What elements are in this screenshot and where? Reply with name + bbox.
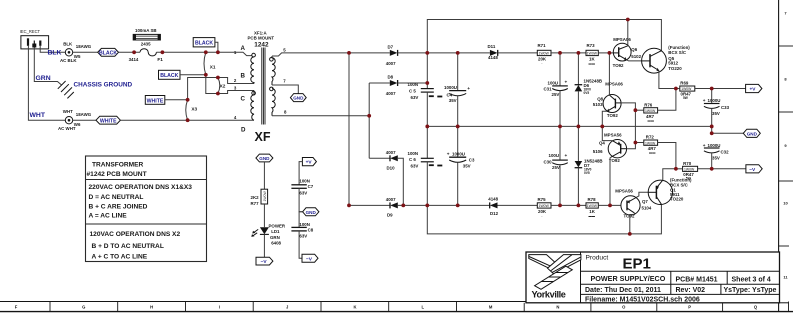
wire R78 to Q7 base: [598, 204, 621, 206]
svg-text:R77: R77: [251, 201, 260, 206]
svg-text:X3: X3: [191, 107, 197, 112]
svg-text:Yorkville: Yorkville: [532, 290, 566, 300]
svg-text:AC BLK: AC BLK: [60, 58, 77, 63]
transformer secondary winding 5-7: [272, 56, 275, 85]
svg-text:D9: D9: [387, 213, 393, 218]
resistor R71 20K: [537, 43, 551, 65]
connector W6: [58, 109, 92, 131]
bottom border strip: [0, 302, 793, 312]
svg-text:100U: 100U: [548, 80, 559, 85]
zener diode D6 1N5248B: [575, 53, 602, 127]
svg-text:C 6: C 6: [409, 157, 416, 162]
capacitor C33 1000U: [703, 89, 730, 134]
wire AC ground from IEC to chassis: [34, 48, 62, 86]
transformer phase dot primary A: [252, 53, 256, 57]
wire left column +raw to C5: [426, 53, 428, 89]
transformer info note box: [86, 156, 207, 262]
svg-text:X2: X2: [220, 83, 226, 88]
svg-text:3414: 3414: [129, 57, 139, 62]
svg-text:220VAC OPERATION DNS X1&X3: 220VAC OPERATION DNS X1&X3: [89, 184, 193, 191]
resistor R77 2K2: [251, 189, 268, 206]
capacitor C6 100N: [408, 151, 443, 169]
wire Q4 collector down to Q7 base node: [609, 157, 612, 205]
wire Q8 emitter to GND rail: [602, 111, 607, 126]
svg-text:20K: 20K: [538, 209, 547, 214]
title block: [526, 252, 780, 303]
svg-text:B: B: [241, 73, 246, 80]
wire W6 to WHITE flag: [73, 119, 96, 121]
svg-text:100N: 100N: [299, 222, 310, 227]
svg-text:+: +: [565, 79, 568, 84]
resistor R75 20K: [537, 197, 551, 218]
capacitor C8 100N: [291, 222, 313, 239]
wire GND to R77: [263, 162, 265, 189]
svg-text:100N: 100N: [408, 151, 419, 156]
wire color callout WHITE (rect): [145, 96, 187, 105]
svg-text:35V: 35V: [463, 164, 471, 169]
power flag -V (output): [746, 165, 762, 173]
svg-text:1W0W: 1W0W: [645, 109, 656, 113]
svg-text:25V: 25V: [552, 92, 560, 97]
svg-text:MPSA06: MPSA06: [605, 81, 623, 86]
svg-text:WHITE: WHITE: [100, 118, 117, 124]
svg-text:100mA SB: 100mA SB: [135, 28, 157, 33]
wire pin8 to rectifier: [272, 115, 369, 117]
wire WHITE node up to X2 box: [188, 78, 206, 100]
wire GND stub to flag: [712, 132, 744, 134]
svg-text:63V: 63V: [299, 191, 307, 196]
resistor R69 0R47: [676, 81, 746, 101]
wire AC neutral from IEC down to W6 row: [28, 46, 65, 120]
wire R71 to R73: [551, 52, 586, 54]
svg-text:1W0W: 1W0W: [539, 52, 550, 56]
svg-text:GRN: GRN: [36, 75, 51, 82]
svg-text:+: +: [467, 86, 470, 91]
svg-text:2435: 2435: [141, 42, 151, 47]
svg-text:4007: 4007: [386, 197, 396, 202]
wire GND mid rail: [427, 125, 711, 127]
capacitor C30 100U: [544, 126, 568, 205]
svg-text:Product: Product: [586, 255, 609, 262]
svg-text:R71: R71: [538, 43, 547, 48]
wire +raw rail D7 to D11: [427, 52, 490, 54]
svg-text:GRN: GRN: [270, 235, 280, 240]
svg-text:R69: R69: [680, 81, 689, 86]
svg-text:BCX S/C: BCX S/C: [668, 50, 687, 55]
wire Q6 emitter to Q5 base: [626, 60, 641, 61]
svg-text:1000U: 1000U: [444, 85, 457, 90]
wire Q4 base to R72 node: [627, 143, 636, 149]
svg-text:1242: 1242: [254, 42, 269, 49]
svg-text:R75: R75: [538, 197, 547, 202]
transistor Q6 MPSA06: [613, 37, 642, 68]
transformer secondary winding 7-8: [272, 89, 275, 116]
svg-text:Q7: Q7: [642, 199, 648, 204]
svg-text:Q6: Q6: [631, 47, 637, 52]
svg-text:Filename: M1451V02SCH.sch 200: Filename: M1451V02SCH.sch 2006: [585, 297, 700, 304]
wire GND to C8: [299, 212, 303, 228]
resistor R76 4R7: [635, 89, 676, 123]
power flag +V (decoupling chain): [299, 158, 316, 185]
wire collector supply top edge: [427, 20, 661, 53]
svg-text:+: +: [565, 153, 568, 158]
wire LED to -V: [263, 234, 265, 257]
wire color callout BLACK (rect) lower: [159, 70, 206, 79]
chassis ground: [58, 81, 74, 98]
wire X2 to pins 2 and 3: [218, 78, 254, 94]
svg-text:BLK: BLK: [63, 41, 73, 46]
svg-text:1W0W: 1W0W: [645, 141, 656, 145]
svg-text:18AWG: 18AWG: [76, 112, 92, 117]
svg-text:R76: R76: [644, 102, 653, 107]
power flag GND (LED chain): [256, 154, 273, 162]
wire WHITE flag to transformer pin 4: [120, 119, 254, 121]
svg-text:D8: D8: [388, 75, 394, 80]
jumper X2: [218, 78, 226, 94]
svg-text:POWER: POWER: [269, 224, 286, 229]
svg-text:C30: C30: [544, 159, 553, 164]
transistor Q1 BCX S/C TO220: [648, 178, 692, 205]
svg-text:5106: 5106: [593, 149, 603, 154]
svg-text:.: .: [542, 214, 543, 218]
svg-text:▬▬: ▬▬: [649, 151, 656, 155]
fuse rating callout 100mA SB: [133, 28, 160, 47]
diode D12: [488, 197, 498, 216]
jumper X3: [186, 100, 198, 120]
svg-text:C 5: C 5: [409, 88, 416, 93]
svg-text:35V: 35V: [712, 111, 720, 116]
capacitor C3 1000U: [447, 126, 475, 205]
svg-text:C33: C33: [721, 105, 730, 110]
wire C5 to GND rail: [426, 92, 428, 158]
svg-text:D12: D12: [490, 211, 499, 216]
svg-text:Sheet 3 of 4: Sheet 3 of 4: [732, 277, 771, 284]
svg-text:GND: GND: [293, 96, 304, 101]
pin number labels: [234, 48, 287, 120]
svg-text:1000U: 1000U: [708, 143, 721, 148]
svg-text:+V: +V: [306, 160, 313, 166]
transistor Q5 BCX S/C TO220: [642, 45, 691, 73]
svg-text:4007: 4007: [386, 61, 396, 66]
svg-text:−V: −V: [749, 167, 756, 173]
wire pin8 column D8 to D10: [368, 83, 370, 158]
svg-text:TO220: TO220: [668, 66, 682, 71]
svg-text:TO92: TO92: [607, 113, 618, 118]
svg-text:H: H: [150, 305, 153, 310]
svg-text:#1242 PCB MOUNT: #1242 PCB MOUNT: [87, 171, 147, 178]
wire R73 to Q6 base: [598, 52, 613, 54]
svg-text:BLK: BLK: [48, 50, 62, 57]
svg-text:6408: 6408: [271, 241, 281, 246]
svg-text:B + C ARE JOINED: B + C ARE JOINED: [89, 203, 148, 210]
wire C6 to -raw rail: [426, 162, 428, 206]
power flag +V (output): [746, 84, 762, 92]
svg-text:20K: 20K: [538, 57, 547, 62]
svg-text:4148: 4148: [488, 197, 498, 202]
svg-text:5104: 5104: [642, 205, 652, 210]
net flag WHITE: [96, 116, 120, 124]
svg-text:C32: C32: [721, 149, 730, 154]
svg-text:+: +: [703, 98, 706, 103]
right border strip: [779, 0, 793, 312]
svg-text:M: M: [489, 305, 493, 310]
resistor R72 4R7: [635, 134, 676, 168]
diode D8: [369, 75, 427, 97]
svg-text:GND: GND: [306, 210, 317, 215]
svg-text:R78: R78: [588, 197, 597, 202]
svg-text:PCB# M1451: PCB# M1451: [676, 277, 718, 284]
svg-text:CHASSIS GROUND: CHASSIS GROUND: [74, 82, 133, 89]
svg-text:−V: −V: [306, 256, 313, 262]
Yorkville logo: [529, 255, 581, 290]
capacitor C31 100U: [544, 53, 568, 127]
svg-text:63V: 63V: [299, 234, 307, 239]
wire fuse to transformer pin 1: [156, 52, 251, 55]
svg-text:5912: 5912: [668, 61, 678, 66]
power flag GND (output): [743, 129, 760, 137]
svg-text:+V: +V: [749, 87, 756, 93]
svg-text:▬▬: ▬▬: [648, 118, 655, 122]
transistor Q7 MPSA56: [615, 189, 652, 219]
svg-text:1000U: 1000U: [452, 152, 465, 157]
svg-text:+: +: [703, 143, 706, 148]
svg-text:D: D: [241, 127, 246, 134]
wire R75 to R78: [551, 204, 586, 206]
svg-text:D = AC NEUTRAL: D = AC NEUTRAL: [89, 194, 144, 201]
svg-text:XF: XF: [255, 130, 271, 144]
wire pin5 column down to D9: [349, 53, 390, 206]
power flag GND (pin7): [290, 94, 306, 102]
wire W5 to BLACK flag: [73, 51, 98, 53]
svg-text:1W0W: 1W0W: [539, 204, 550, 208]
wire R77 to LED: [263, 204, 265, 227]
svg-text:MPSA56: MPSA56: [615, 189, 633, 194]
svg-text:A = AC LINE: A = AC LINE: [89, 213, 128, 220]
zener diode D7 1N5248B (lower): [575, 126, 603, 205]
wire AC hot from IEC to W5: [40, 46, 65, 53]
svg-text:120VAC OPERATION DNS X2: 120VAC OPERATION DNS X2: [90, 231, 181, 238]
svg-text:4007: 4007: [386, 150, 396, 155]
svg-text:L: L: [422, 305, 425, 310]
svg-text:TO92: TO92: [613, 63, 624, 68]
net flag BLACK: [98, 48, 119, 56]
transistor Q8 MPSA06 (mirrored): [593, 81, 624, 118]
svg-text:C7: C7: [308, 184, 314, 189]
transistor Q4 MPSA56 (mirrored): [593, 132, 627, 162]
capacitor C32 1000U: [703, 143, 729, 169]
svg-text:PCB MOUNT: PCB MOUNT: [248, 35, 275, 40]
wire X1 node into X2 box: [206, 75, 218, 94]
svg-text:D10: D10: [387, 166, 396, 171]
svg-text:Date: Thu Dec 01, 2011: Date: Thu Dec 01, 2011: [585, 287, 661, 294]
svg-text:35V: 35V: [712, 155, 720, 160]
svg-text:B + D TO AC NEUTRAL: B + D TO AC NEUTRAL: [92, 243, 164, 250]
wire collector supply bottom edge: [427, 204, 661, 234]
svg-text:−V: −V: [261, 259, 268, 265]
svg-text:TO220: TO220: [670, 197, 684, 202]
svg-text:TRANSFORMER: TRANSFORMER: [92, 162, 144, 169]
svg-text:MPSA56: MPSA56: [604, 132, 622, 137]
svg-text:25V: 25V: [552, 165, 560, 170]
wire top edge to Q6 collector: [627, 20, 629, 46]
svg-text:X1: X1: [210, 65, 216, 70]
wire Q8 base node to Q4 base node: [634, 110, 636, 142]
svg-text:Q4: Q4: [599, 141, 605, 146]
svg-text:0V5: 0V5: [584, 171, 590, 175]
svg-text:5W: 5W: [683, 96, 688, 100]
wire -raw rail: [398, 204, 490, 206]
svg-text:Rev: V02: Rev: V02: [676, 287, 706, 294]
wire Q7 collector to bottom edge: [630, 213, 635, 234]
svg-text:POWER SUPPLY/ECO: POWER SUPPLY/ECO: [591, 274, 666, 283]
svg-text:K: K: [353, 305, 356, 310]
wire BLACK flag to fuse: [119, 51, 141, 53]
svg-text:R72: R72: [646, 134, 655, 139]
svg-text:100U: 100U: [549, 153, 560, 158]
svg-text:C3: C3: [469, 157, 475, 162]
svg-text:G: G: [82, 305, 85, 310]
svg-text:GND: GND: [259, 156, 270, 161]
transformer phase dot secondary 7: [270, 87, 274, 91]
svg-text:4007: 4007: [386, 91, 396, 96]
diode D9: [386, 197, 398, 218]
svg-text:63V: 63V: [411, 163, 419, 168]
svg-text:BLACK: BLACK: [195, 41, 213, 47]
transformer primary winding C-D: [251, 91, 254, 121]
capacitor C4 1000U: [444, 53, 470, 127]
svg-text:1W0W: 1W0W: [587, 52, 598, 56]
jumper X1: [204, 52, 216, 75]
diode D10: [369, 150, 403, 205]
svg-text:A + C TO AC LINE: A + C TO AC LINE: [92, 254, 148, 261]
svg-text:1W0W: 1W0W: [263, 191, 267, 202]
svg-text:1W0W: 1W0W: [587, 204, 598, 208]
diode D7: [386, 45, 428, 67]
svg-text:I: I: [219, 305, 220, 310]
svg-text:LD1: LD1: [271, 229, 280, 234]
svg-text:5102: 5102: [631, 54, 641, 59]
svg-text:C8: C8: [308, 228, 314, 233]
wire pin7 to GND: [272, 85, 298, 94]
wire Q4 emitter to GND rail: [602, 126, 612, 140]
LED LD1 POWER: [251, 224, 286, 246]
svg-text:N: N: [556, 305, 559, 310]
resistor R73 1K: [586, 43, 598, 65]
svg-text:AC WHT: AC WHT: [58, 126, 76, 131]
svg-text:BLACK: BLACK: [160, 73, 178, 79]
svg-text:P: P: [688, 305, 691, 310]
svg-text:IEC_RECT: IEC_RECT: [20, 29, 41, 34]
svg-text:WHT: WHT: [63, 109, 73, 114]
wire pin5 to D7 anode: [272, 53, 390, 56]
svg-text:YsType: YsType: YsType: YsType: [724, 287, 777, 294]
wire D11 to R71: [498, 52, 538, 54]
svg-text:WHT: WHT: [30, 112, 46, 119]
wire Q7 emitter to Q1 base: [636, 192, 648, 197]
wire Q5 emitter to +V node: [659, 71, 676, 89]
svg-text:EP1: EP1: [623, 256, 651, 273]
svg-text:GND: GND: [747, 131, 758, 136]
connector J1 IEC_RECT: [20, 29, 49, 49]
svg-text:0V5: 0V5: [584, 91, 590, 95]
svg-text:A: A: [241, 45, 246, 52]
svg-text:4148: 4148: [488, 55, 498, 60]
svg-text:F1: F1: [157, 57, 163, 62]
svg-text:WHITE: WHITE: [147, 98, 164, 104]
fuse F1: [129, 49, 164, 62]
wire Q1 emitter to -V node: [663, 169, 676, 180]
winding letter labels A B C D: [241, 45, 247, 134]
resistor R70 0R47: [676, 161, 746, 181]
power flag -V (LED chain): [256, 257, 273, 265]
wire Q8 base to R76 node: [621, 103, 635, 110]
svg-text:F: F: [15, 305, 18, 310]
svg-text:C31: C31: [544, 87, 553, 92]
svg-text:2K2: 2K2: [251, 195, 260, 200]
transformer phase dot primary C: [252, 91, 256, 95]
power flag GND (decoupling mid): [303, 208, 319, 216]
svg-text:Q8: Q8: [597, 97, 603, 102]
transformer core: [262, 48, 265, 125]
resistor R78 1K: [586, 197, 598, 218]
svg-text:▬▬: ▬▬: [589, 214, 596, 218]
power flag -V (decoupling chain): [302, 254, 318, 262]
diode D11: [488, 44, 499, 60]
svg-text:63V: 63V: [411, 95, 419, 100]
svg-text:TO92: TO92: [609, 158, 620, 163]
svg-text:MPSA06: MPSA06: [613, 37, 631, 42]
svg-text:5103: 5103: [593, 102, 603, 107]
wire color callout BLACK (rect) upper: [193, 38, 218, 53]
svg-text:▬▬: ▬▬: [589, 61, 596, 65]
wire C8 to -V: [299, 231, 302, 258]
wire C7 to GND: [299, 188, 303, 212]
svg-text:BLACK: BLACK: [99, 50, 117, 56]
svg-text:18AWG: 18AWG: [76, 44, 92, 49]
transformer primary winding A-B: [251, 57, 254, 84]
svg-text:C: C: [241, 96, 246, 103]
transformer XF1: [248, 30, 275, 48]
svg-text:D7: D7: [388, 45, 394, 50]
svg-text:R70: R70: [683, 161, 692, 166]
svg-text:R73: R73: [587, 43, 596, 48]
connector W5: [60, 41, 92, 62]
capacitor C5 100N: [408, 82, 443, 100]
wire Q8 collector to Q6 base node: [608, 53, 610, 95]
svg-text:+: +: [447, 152, 450, 157]
svg-text:1000U: 1000U: [708, 98, 721, 103]
svg-text:10: 10: [783, 201, 788, 206]
svg-text:35V: 35V: [449, 98, 457, 103]
svg-text:.: .: [542, 61, 543, 65]
svg-text:D11: D11: [488, 44, 496, 49]
transformer phase dot secondary 5: [270, 58, 274, 62]
svg-text:100N: 100N: [299, 179, 310, 184]
wire D12 to R75: [498, 204, 538, 206]
capacitor C7 100N: [291, 179, 313, 196]
